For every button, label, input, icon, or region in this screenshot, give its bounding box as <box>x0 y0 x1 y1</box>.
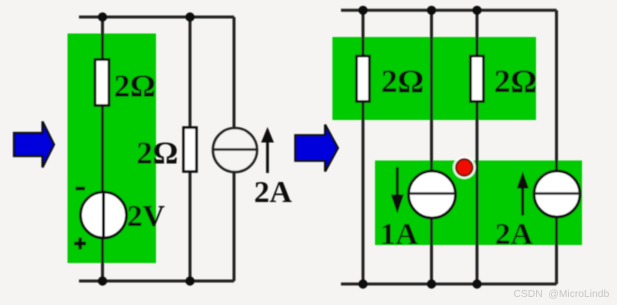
svg-text:2Ω: 2Ω <box>114 68 156 104</box>
svg-text:2A: 2A <box>495 216 534 251</box>
svg-text:2Ω: 2Ω <box>381 64 424 100</box>
svg-text:1A: 1A <box>380 216 419 251</box>
svg-text:CSDN @MicroLindb: CSDN @MicroLindb <box>514 289 610 300</box>
svg-text:2A: 2A <box>254 174 293 209</box>
svg-text:2V: 2V <box>127 198 166 233</box>
svg-text:2Ω: 2Ω <box>137 135 179 171</box>
svg-text:2Ω: 2Ω <box>494 64 537 100</box>
